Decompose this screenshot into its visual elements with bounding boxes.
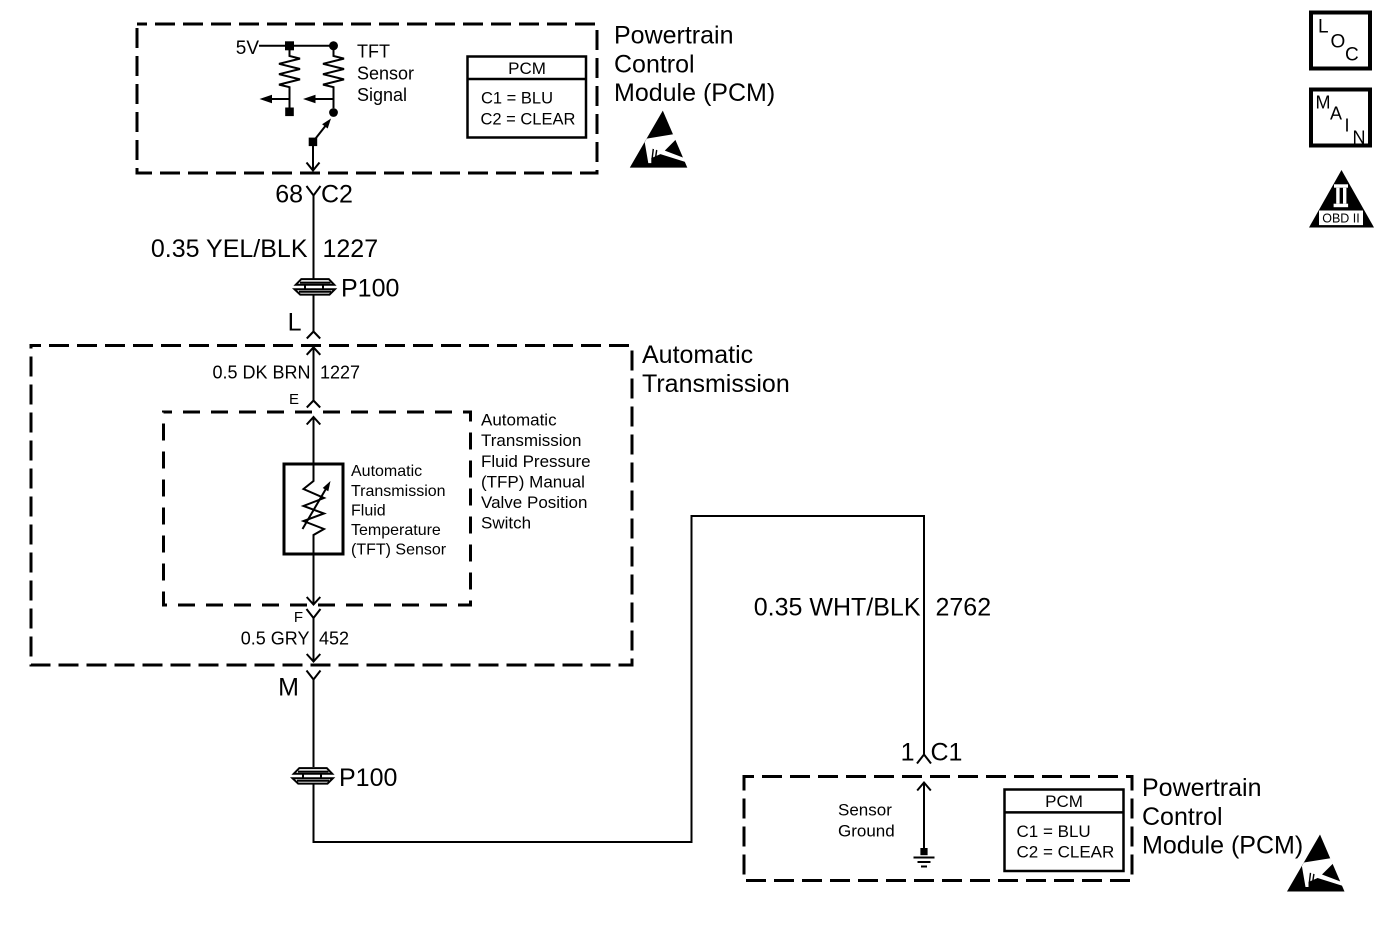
PCM pin table (bottom): [1005, 790, 1124, 872]
wire TFT sensor to pin F: [313, 554, 315, 604]
locator box MAIN: [1311, 90, 1370, 146]
svg-text:0.5 DK BRN: 0.5 DK BRN: [212, 363, 310, 383]
junction square (left pull-up top): [285, 41, 294, 50]
terminal dot (right): [329, 108, 338, 117]
svg-text:OBD II: OBD II: [1322, 212, 1360, 226]
PCM (top) dashed enclosure: [137, 24, 597, 173]
switch wiper arrowhead: [322, 119, 331, 129]
svg-text:Transmission: Transmission: [351, 483, 446, 500]
ESD symbol (top): [630, 111, 690, 168]
wire left output: [268, 98, 290, 100]
svg-text:(TFT) Sensor: (TFT) Sensor: [351, 542, 447, 559]
wire 0.5 DK BRN 1227: [313, 347, 315, 400]
wire left output drop: [289, 99, 291, 108]
ground symbol: [914, 857, 935, 859]
resistor (right pull-up): [323, 46, 344, 99]
svg-text:Switch: Switch: [481, 514, 531, 533]
wire M down: [313, 680, 315, 768]
connector fork at M: [307, 671, 321, 680]
PCM (bottom) dashed enclosure: [744, 777, 1132, 881]
svg-text:M: M: [1316, 93, 1331, 113]
splice P100 (upper): [295, 279, 335, 295]
TFT sensor box: [284, 464, 343, 554]
svg-text:Powertrain: Powertrain: [614, 22, 734, 50]
svg-text:Module (PCM): Module (PCM): [1142, 832, 1303, 860]
junction dot (right pull-up top): [329, 41, 338, 50]
svg-text:Ground: Ground: [838, 822, 895, 841]
TFP switch inner dashed enclosure: [164, 412, 471, 605]
svg-text:E: E: [289, 391, 299, 408]
arrowhead left output: [260, 95, 273, 104]
svg-text:C: C: [1345, 45, 1359, 66]
wire sensor ground: [923, 783, 925, 849]
svg-text:C2: C2: [321, 181, 353, 209]
arrowhead up into AT enclosure: [307, 347, 321, 355]
svg-text:C2 = CLEAR: C2 = CLEAR: [1017, 843, 1115, 862]
svg-text:Temperature: Temperature: [351, 522, 441, 539]
wire down to TFT sensor: [313, 417, 315, 464]
svg-text:Valve Position: Valve Position: [481, 493, 587, 512]
wire pivot down to pin 68: [312, 146, 314, 170]
svg-text:P100: P100: [341, 275, 399, 303]
svg-text:F: F: [294, 609, 303, 626]
thermistor arrow arm: [303, 487, 328, 529]
svg-text:C1: C1: [931, 739, 963, 767]
wire 0.5 GRY 452: [313, 618, 315, 662]
svg-text:1227: 1227: [320, 363, 360, 383]
svg-text:5V: 5V: [236, 38, 260, 59]
arrowhead down at AT enclosure edge: [307, 654, 321, 662]
svg-text:Control: Control: [1142, 803, 1223, 831]
svg-text:Signal: Signal: [357, 85, 407, 105]
svg-text:Automatic: Automatic: [481, 411, 557, 430]
svg-text:Sensor: Sensor: [357, 63, 414, 83]
arrowhead up to pin 1: [917, 783, 931, 791]
thermistor element: [304, 464, 325, 554]
svg-text:N: N: [1353, 128, 1366, 148]
svg-text:1: 1: [901, 739, 915, 767]
svg-text:2762: 2762: [936, 594, 992, 622]
switch wiper pivot square: [309, 138, 318, 147]
wire 0.35 YEL/BLK 1227: [313, 196, 315, 280]
svg-text:(TFP) Manual: (TFP) Manual: [481, 472, 585, 491]
wire right output drop: [333, 99, 335, 108]
arrowhead up into TFP enclosure: [307, 417, 321, 425]
svg-text:P100: P100: [339, 764, 397, 792]
svg-text:TFT: TFT: [357, 42, 390, 62]
svg-text:PCM: PCM: [1045, 792, 1083, 811]
svg-text:C1 = BLU: C1 = BLU: [1017, 822, 1091, 841]
svg-text:I: I: [1345, 116, 1350, 136]
svg-text:L: L: [288, 309, 302, 337]
svg-text:Automatic: Automatic: [642, 341, 753, 369]
svg-text:68: 68: [275, 181, 303, 209]
svg-text:1227: 1227: [323, 235, 379, 263]
svg-text:Control: Control: [614, 50, 695, 78]
ESD symbol (bottom): [1287, 835, 1347, 892]
svg-text:Transmission: Transmission: [481, 431, 581, 450]
switch wiper arm: [313, 123, 328, 142]
connector nest at 1 C1: [917, 755, 931, 764]
ground junction square: [920, 848, 927, 855]
arrowhead right output: [303, 95, 316, 104]
wire right output: [312, 98, 334, 100]
svg-text:L: L: [1318, 17, 1329, 38]
svg-text:Sensor: Sensor: [838, 801, 892, 820]
terminal square (left): [285, 108, 294, 117]
connector nest at E: [307, 401, 320, 408]
svg-text:0.35 WHT/BLK: 0.35 WHT/BLK: [754, 594, 921, 622]
wire P100 to pin L: [313, 295, 315, 332]
svg-text:C1 = BLU: C1 = BLU: [481, 90, 553, 108]
thermistor arrowhead: [323, 481, 331, 491]
locator box LOC: [1311, 13, 1370, 69]
svg-text:Fluid: Fluid: [351, 502, 386, 519]
resistor (left pull-up): [279, 46, 300, 99]
svg-text:C2 = CLEAR: C2 = CLEAR: [481, 111, 576, 129]
connector fork at 68 C2: [307, 186, 321, 196]
svg-text:Automatic: Automatic: [351, 463, 422, 480]
Automatic Transmission dashed enclosure: [31, 346, 632, 666]
svg-text:0.5 GRY: 0.5 GRY: [241, 629, 310, 649]
svg-text:0.35 YEL/BLK: 0.35 YEL/BLK: [151, 235, 308, 263]
PCM pin table (top): [468, 57, 587, 138]
svg-text:Fluid Pressure: Fluid Pressure: [481, 452, 591, 471]
connector nest at L: [307, 332, 320, 339]
svg-text:452: 452: [319, 629, 349, 649]
svg-text:Module (PCM): Module (PCM): [614, 79, 775, 107]
svg-text:M: M: [278, 674, 299, 702]
arrowhead down at TFP enclosure edge: [307, 597, 321, 605]
svg-text:O: O: [1331, 32, 1346, 53]
connector fork at F: [307, 609, 321, 618]
svg-text:A: A: [1330, 104, 1342, 124]
svg-text:Transmission: Transmission: [642, 370, 790, 398]
svg-text:PCM: PCM: [508, 59, 546, 78]
wire route M to PCM C1: [314, 516, 925, 842]
wire 5V bus: [259, 45, 334, 47]
arrowhead down at enclosure edge: [307, 163, 320, 171]
svg-text:Powertrain: Powertrain: [1142, 774, 1262, 802]
splice P100 (lower): [293, 768, 333, 784]
OBD II symbol: [1309, 170, 1374, 228]
